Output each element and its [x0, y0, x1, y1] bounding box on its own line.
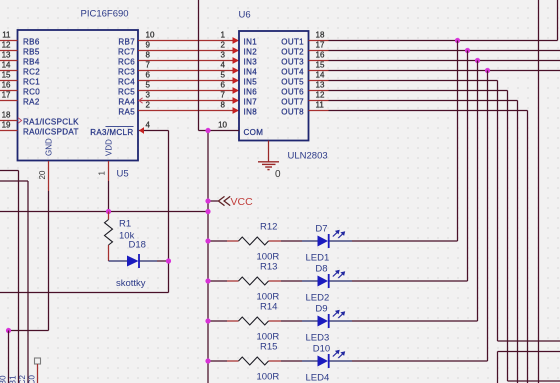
resistor R1 leads [108, 212, 110, 220]
svg-text:skottky: skottky [116, 278, 146, 289]
svg-text:OUT1: OUT1 [281, 38, 304, 47]
svg-text:100R: 100R [257, 372, 280, 383]
LED D8 emission arrows [333, 272, 344, 278]
LED D10 emission arrows [333, 352, 344, 358]
wire between resistor and LED [281, 320, 302, 322]
arrow into U6 IN pin [233, 47, 240, 54]
resistor R1 zigzag [105, 220, 113, 245]
svg-text:11: 11 [2, 31, 11, 40]
svg-text:IN5: IN5 [244, 78, 258, 87]
wire U5 pin 11 stub [0, 40, 18, 42]
svg-text:R12: R12 [260, 222, 277, 233]
wire net from left edge y=181 [0, 180, 28, 182]
svg-text:7: 7 [221, 90, 226, 99]
junction rail R13 row [205, 278, 210, 283]
svg-text:17: 17 [316, 40, 325, 49]
svg-text:12: 12 [316, 90, 325, 99]
arrow into U6 IN pin [233, 97, 240, 104]
wire OUT7 vertical x=517.5 to bottom [517, 101, 519, 383]
resistor R14 leads [227, 320, 239, 322]
wire U5 RC3 to U6 [138, 70, 233, 72]
svg-text:20: 20 [38, 170, 47, 179]
LED D7 emission arrows [333, 232, 344, 238]
LED D8 leads [302, 280, 318, 282]
wire U5 RC5 to U6 [138, 90, 233, 92]
wire U5 RA5 to U6 [138, 110, 233, 112]
svg-text:16: 16 [316, 50, 325, 59]
svg-text:R15: R15 [260, 342, 277, 353]
wire GND pin 20 down [48, 161, 50, 191]
svg-text:R14: R14 [260, 302, 277, 313]
junction D18 cathode to MCLR net [166, 258, 171, 263]
junction OUT1 branch [455, 38, 460, 43]
wire U5 pin 14 stub [0, 70, 18, 72]
U5 pin 18 open arrow RA1 [18, 118, 22, 124]
junction rail R14 row [205, 318, 210, 323]
svg-text:RB6: RB6 [23, 38, 40, 47]
arrow into U6 IN pin [233, 57, 240, 64]
wire OUT1 net row y=40.5 [309, 40, 329, 42]
ground symbol stem [268, 141, 270, 162]
svg-text:LED3: LED3 [306, 333, 330, 344]
wire OUT6 vertical x=507.5 [507, 91, 509, 382]
svg-text:4: 4 [221, 60, 226, 69]
svg-text:RB5: RB5 [23, 48, 40, 57]
wire U5 RB7 to U6 [138, 40, 233, 42]
wire net to COM from top edge [198, 0, 200, 131]
svg-text:6: 6 [146, 71, 151, 80]
svg-text:D8: D8 [315, 264, 327, 275]
VCC chevron arrows [218, 196, 230, 205]
svg-text:3: 3 [146, 91, 151, 100]
svg-text:5: 5 [146, 81, 151, 90]
svg-text:1: 1 [221, 30, 226, 39]
svg-text:OUT3: OUT3 [281, 58, 304, 67]
svg-text:D10: D10 [313, 344, 330, 355]
svg-text:IN7: IN7 [244, 98, 258, 107]
svg-text:OUT8: OUT8 [281, 108, 304, 117]
resistor R13 zigzag [239, 277, 269, 285]
resistor R15 leads [227, 360, 239, 362]
junction VDD/R1 at (108.5,211.5) [106, 209, 111, 214]
MCLR overline [106, 126, 134, 128]
svg-text:7: 7 [146, 61, 151, 70]
svg-text:9: 9 [146, 41, 151, 50]
svg-text:OUT7: OUT7 [281, 98, 304, 107]
LED D8 triangle [318, 276, 329, 287]
svg-text:IN6: IN6 [244, 88, 258, 97]
svg-text:12: 12 [2, 41, 11, 50]
svg-text:R1: R1 [119, 219, 131, 230]
svg-text:2: 2 [146, 101, 151, 110]
wire U5 RC4 to U6 [138, 80, 233, 82]
svg-text:LED1: LED1 [306, 253, 330, 264]
LED D10 triangle [318, 356, 329, 367]
svg-text:RA3/MCLR: RA3/MCLR [90, 128, 133, 137]
svg-text:8: 8 [221, 100, 226, 109]
svg-text:RC6: RC6 [118, 58, 135, 67]
svg-text:RA1/ICSPCLK: RA1/ICSPCLK [23, 118, 79, 127]
svg-text:RC7: RC7 [118, 48, 135, 57]
svg-text:IN8: IN8 [244, 108, 258, 117]
diode D18 cathode bar [138, 254, 140, 268]
svg-text:U5: U5 [117, 169, 129, 180]
wire LED D9 to vertical [352, 320, 478, 322]
svg-text:6: 6 [221, 80, 226, 89]
svg-text:10: 10 [218, 121, 227, 130]
svg-text:ULN2803: ULN2803 [288, 150, 328, 161]
svg-text:RB1: RB1 [9, 375, 18, 383]
wire between resistor and LED [281, 280, 302, 282]
wire OUT6 exit right y=381 [508, 380, 560, 382]
svg-text:10: 10 [146, 31, 155, 40]
svg-text:RC4: RC4 [118, 78, 135, 87]
LED D10 leads [302, 360, 318, 362]
wire MCLR vertical x=168.5 [168, 131, 170, 293]
arrow into U6 IN pin [233, 87, 240, 94]
svg-text:OUT5: OUT5 [281, 78, 304, 87]
arrow into U6 IN pin [233, 107, 240, 114]
svg-text:RA0/ICSPDAT: RA0/ICSPDAT [23, 128, 79, 137]
arrow into U6 IN pin [233, 67, 240, 74]
svg-text:RC1: RC1 [23, 78, 40, 87]
junction COM/VCC rail [205, 128, 210, 133]
junction rail at (208,211.5) [205, 209, 210, 214]
junction rail R15 row [205, 358, 210, 363]
junction VCC tap [205, 198, 210, 203]
wire U5 pin 18 stub [0, 120, 18, 122]
resistor R12 zigzag [239, 237, 269, 245]
wire net vertical x=497.5 lower to bottom [497, 352, 499, 383]
junction OUT4 branch [485, 68, 490, 73]
LED D9 emission arrows [333, 312, 344, 318]
svg-text:PIC16F690: PIC16F690 [81, 8, 129, 19]
svg-text:OUT2: OUT2 [281, 48, 304, 57]
svg-text:RC0: RC0 [23, 88, 40, 97]
junction OUT3 branch [475, 58, 480, 63]
LED D9 triangle [318, 316, 329, 327]
wire vertical x=457.5 to LED row [457, 41, 459, 242]
wire U5 RC7 to U6 [138, 50, 233, 52]
wire D18 cathode to MCLR net [157, 260, 169, 262]
wire OUT5 exit right y=341 [498, 340, 560, 342]
svg-text:GND: GND [45, 138, 54, 156]
LED D9 cathode bar [328, 314, 330, 328]
svg-text:14: 14 [316, 70, 325, 79]
arrow into U6 IN pin [233, 37, 240, 44]
wire between resistor and LED [281, 240, 302, 242]
LED D8 cathode bar [328, 274, 330, 288]
junction OUT2 branch [465, 48, 470, 53]
wire net row D7 y=241 [208, 240, 227, 242]
svg-text:15: 15 [316, 60, 325, 69]
wire VCC rail vertical x=208 [207, 131, 209, 383]
wire vertical x=467.5 to LED row [467, 51, 469, 282]
svg-text:0: 0 [275, 169, 281, 180]
wire net from right edge y=351.5 [498, 351, 560, 353]
svg-text:RC2: RC2 [23, 68, 40, 77]
svg-text:14: 14 [2, 61, 11, 70]
svg-text:IN2: IN2 [244, 48, 258, 57]
LED D7 cathode bar [328, 234, 330, 248]
svg-text:D18: D18 [129, 240, 146, 251]
wire MCLR net bottom run to left edge [0, 292, 169, 294]
LED D7 triangle [318, 236, 329, 247]
wire U5 pin 12 stub [0, 50, 18, 52]
wire COM pin left [199, 130, 240, 132]
wire net row D9 y=321 [208, 320, 227, 322]
svg-text:19: 19 [2, 121, 11, 130]
wire OUT2 net row y=50.5 [309, 50, 329, 52]
svg-text:D7: D7 [315, 224, 327, 235]
wire LED D8 to vertical [352, 280, 468, 282]
svg-text:IN3: IN3 [244, 58, 258, 67]
U5 pin 3 open arrow RA4 [139, 98, 143, 103]
svg-text:RA5: RA5 [118, 108, 135, 117]
wire OUT8 vertical x=527.5 to bottom [527, 111, 529, 383]
wire OUT5 vertical x=497.5 [497, 81, 499, 342]
wire vertical x=487.5 to LED row [487, 71, 489, 362]
junction at (8.5,330.5) [6, 328, 11, 333]
wire horizontal y=211.5 from left edge to VCC rail [0, 211, 208, 213]
svg-text:D9: D9 [315, 304, 327, 315]
svg-text:15: 15 [2, 71, 11, 80]
IC U6 ULN2803 body [239, 31, 309, 141]
svg-text:RC3: RC3 [118, 68, 135, 77]
wire vertical x=18.5 [18, 171, 20, 383]
svg-text:8: 8 [146, 51, 151, 60]
svg-text:4: 4 [146, 121, 151, 130]
svg-text:U6: U6 [239, 10, 251, 21]
svg-text:3: 3 [221, 50, 226, 59]
wire GND down to bottom at x=8.5 [8, 331, 10, 383]
svg-text:COM: COM [244, 128, 264, 137]
wire LED D10 to vertical [352, 360, 488, 362]
wire net row D8 y=281 [208, 280, 227, 282]
svg-text:16: 16 [2, 81, 11, 90]
resistor R15 zigzag [239, 357, 269, 365]
svg-text:RC5: RC5 [118, 88, 135, 97]
wire OUT3 net row y=60.5 [309, 60, 329, 62]
resistor R13 leads [227, 280, 239, 282]
svg-text:VDD: VDD [105, 139, 114, 156]
wire U5 pin 13 stub [0, 60, 18, 62]
wire U5 pin 17 stub [0, 100, 18, 102]
svg-text:18: 18 [2, 111, 11, 120]
arrow into U6 IN pin [233, 77, 240, 84]
svg-text:R13: R13 [260, 262, 277, 273]
diode D18 leads [109, 260, 128, 262]
svg-text:2: 2 [221, 40, 226, 49]
wire U5 pin 4 RA3/MCLR to vertical [139, 130, 169, 132]
svg-text:RB7: RB7 [118, 38, 135, 47]
wire LED D7 to vertical [352, 240, 458, 242]
resistor R12 leads [227, 240, 239, 242]
svg-text:1: 1 [98, 171, 107, 176]
wire net vertical x=538.5 top to bottom [538, 0, 540, 383]
svg-text:RA4: RA4 [118, 98, 135, 107]
svg-text:17: 17 [2, 91, 11, 100]
svg-text:OUT4: OUT4 [281, 68, 304, 77]
svg-text:13: 13 [2, 51, 11, 60]
wire net row D10 y=361 [208, 360, 227, 362]
svg-text:RC2: RC2 [18, 374, 27, 383]
svg-text:LED4: LED4 [306, 373, 330, 383]
svg-text:LED2: LED2 [306, 293, 330, 304]
wire OUT6 net row y=90.5 [309, 90, 329, 92]
LED D9 leads [302, 320, 318, 322]
IC U5 PIC16F690 body [18, 30, 139, 161]
wire OUT4 net row y=70.5 [309, 70, 329, 72]
wire between resistor and LED [281, 360, 302, 362]
LED D7 leads [302, 240, 318, 242]
svg-text:RA2: RA2 [23, 98, 40, 107]
svg-text:RB0: RB0 [0, 375, 8, 383]
svg-text:5: 5 [221, 70, 226, 79]
svg-text:RB4: RB4 [23, 58, 40, 67]
svg-text:13: 13 [316, 80, 325, 89]
arrow into MCLR pin [139, 127, 144, 134]
wire vertical x=28 [27, 181, 29, 383]
junction rail R12 row [205, 238, 210, 243]
wire net from left edge y=170.5 [0, 170, 19, 172]
wire OUT7 net row y=100.5 [309, 100, 329, 102]
wire U5 pin 16 stub [0, 90, 18, 92]
svg-text:IN1: IN1 [244, 38, 258, 47]
wire U5 RC6 to U6 [138, 60, 233, 62]
wire terminal down [37, 364, 39, 383]
wire VDD pin 1 down [108, 161, 110, 181]
wire U5 pin 19 stub [0, 130, 18, 132]
wire OUT5 net row y=80.5 [309, 80, 329, 82]
wire vertical x=477.5 to LED row [477, 61, 479, 322]
svg-text:11: 11 [316, 100, 325, 109]
svg-text:RC0: RC0 [28, 374, 37, 383]
resistor R14 zigzag [239, 317, 269, 325]
LED D10 cathode bar [328, 354, 330, 368]
wire U5 pin 15 stub [0, 80, 18, 82]
wire OUT1 net up right corner [557, 0, 559, 41]
terminal pin square [35, 358, 41, 364]
ground symbol bars [258, 161, 279, 163]
svg-text:OUT6: OUT6 [281, 88, 304, 97]
diode D18 triangle [127, 256, 139, 267]
svg-text:18: 18 [316, 30, 325, 39]
wire GND run left at y=330.5 [9, 330, 49, 332]
svg-text:VCC: VCC [231, 196, 254, 208]
svg-text:IN4: IN4 [244, 68, 258, 77]
wire OUT8 net row y=110.5 [309, 110, 329, 112]
wire U5 RA4 to U6 [138, 100, 233, 102]
VCC power label stub [208, 200, 218, 202]
